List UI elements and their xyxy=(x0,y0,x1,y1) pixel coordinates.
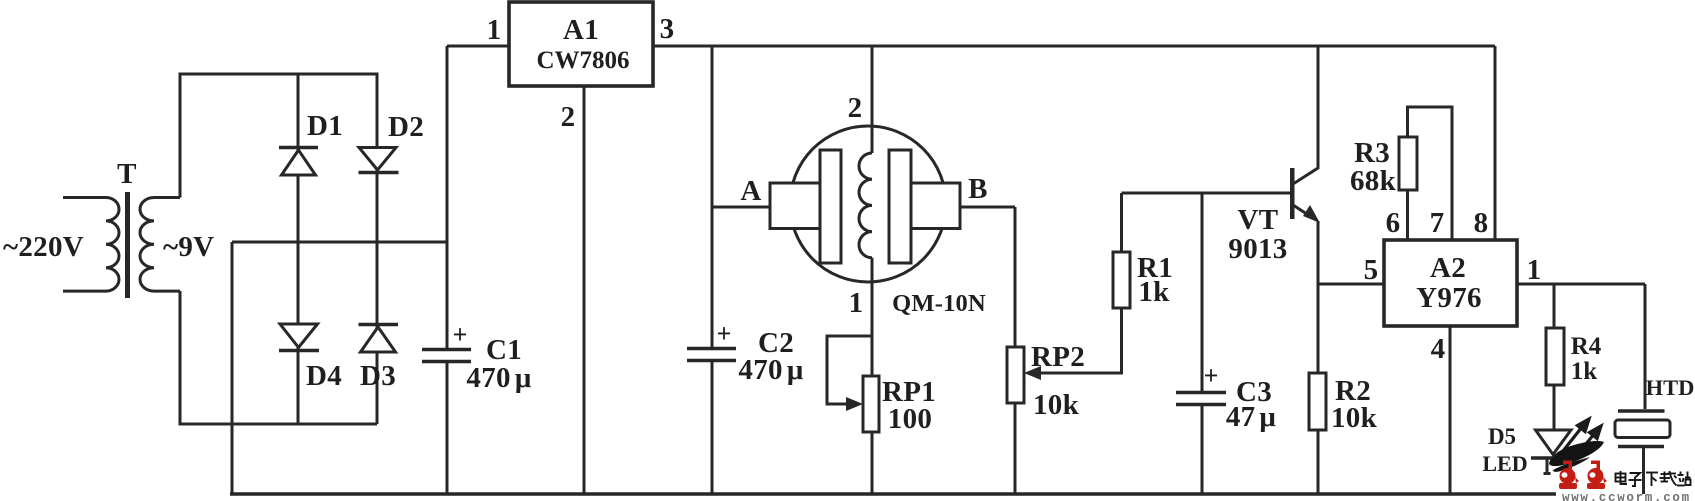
wire mid to ground rail xyxy=(231,242,234,494)
svg-text:68k: 68k xyxy=(1350,165,1397,197)
sensor right tab B xyxy=(911,183,960,229)
potentiometer RP1 xyxy=(827,336,936,494)
svg-text:1: 1 xyxy=(1527,254,1542,286)
svg-text:7: 7 xyxy=(1430,207,1445,239)
wire pin 5 xyxy=(1318,283,1384,286)
resistor R3 xyxy=(1350,107,1452,240)
svg-text:HTD: HTD xyxy=(1646,375,1695,400)
wire top rail xyxy=(653,45,1495,48)
svg-text:1k: 1k xyxy=(1571,358,1598,385)
svg-text:www.ccworm.com: www.ccworm.com xyxy=(1562,491,1691,501)
svg-text:470μ: 470μ xyxy=(738,354,803,386)
svg-text:RP2: RP2 xyxy=(1031,341,1085,373)
diode D2 xyxy=(359,111,425,173)
svg-text:100: 100 xyxy=(888,403,932,435)
resistor R4 xyxy=(1546,284,1602,430)
regulator A1 CW7806 xyxy=(447,2,674,133)
svg-text:A1: A1 xyxy=(563,14,599,46)
svg-text:5: 5 xyxy=(1364,254,1379,286)
wire base line xyxy=(1122,192,1292,195)
transformer primary winding xyxy=(63,198,119,292)
svg-text:D2: D2 xyxy=(388,111,424,143)
svg-text:Y976: Y976 xyxy=(1416,282,1482,314)
sensor pin 1 wire xyxy=(871,258,874,376)
svg-text:1: 1 xyxy=(487,14,502,46)
wire bridge bottom xyxy=(179,423,378,426)
svg-text:A2: A2 xyxy=(1430,252,1466,284)
svg-text:10k: 10k xyxy=(1331,402,1378,434)
svg-text:B: B xyxy=(968,173,988,205)
svg-text:D4: D4 xyxy=(306,360,342,392)
svg-text:1: 1 xyxy=(849,287,864,319)
svg-text:+: + xyxy=(1204,361,1219,390)
diode D1 xyxy=(279,110,343,175)
watermark ink blob xyxy=(1549,441,1604,466)
transformer secondary winding xyxy=(140,198,180,292)
IC A2 Y976 xyxy=(1364,207,1542,365)
wire B to RP2 xyxy=(960,206,1015,209)
svg-text:3: 3 xyxy=(660,13,675,45)
svg-text:D5: D5 xyxy=(1488,424,1516,449)
diode D3 xyxy=(359,325,399,393)
svg-text:+: + xyxy=(717,319,732,348)
watermark bug 1 xyxy=(1559,461,1577,490)
svg-text:4: 4 xyxy=(1431,333,1446,365)
transistor VT 9013 xyxy=(1228,46,1320,373)
LED D5 xyxy=(1482,424,1576,476)
wire pin 8 xyxy=(1494,46,1497,240)
capacitor C1 xyxy=(422,46,532,494)
sensor left tab A xyxy=(770,183,820,229)
svg-text:47μ: 47μ xyxy=(1226,401,1277,433)
svg-text:10k: 10k xyxy=(1033,389,1080,421)
svg-text:A: A xyxy=(740,175,761,207)
wire bridge top rail xyxy=(179,73,379,76)
resistor R1 xyxy=(1113,193,1173,308)
wire secondary top up xyxy=(179,74,182,198)
buzzer HTD xyxy=(1615,284,1694,494)
wire bridge right branch xyxy=(376,74,379,424)
svg-text:6: 6 xyxy=(1386,207,1401,239)
svg-text:D3: D3 xyxy=(360,360,396,392)
ground rail xyxy=(230,492,1556,496)
potentiometer RP2 xyxy=(1007,207,1122,494)
sensor pin 2 wire xyxy=(871,46,874,153)
svg-text:+: + xyxy=(453,320,468,349)
wire secondary top jog xyxy=(179,291,182,424)
svg-text:LED: LED xyxy=(1482,451,1527,476)
svg-text:~9V: ~9V xyxy=(163,231,214,263)
transformer T core xyxy=(125,192,130,298)
svg-text:R4: R4 xyxy=(1571,333,1602,360)
sensor heater coil xyxy=(859,153,872,258)
watermark text 电子下载站 xyxy=(1616,471,1691,486)
capacitor C2 xyxy=(687,46,804,494)
wire pin 4 xyxy=(1449,326,1452,494)
wire A1 pin2 down xyxy=(583,86,586,494)
wire A to C2 line xyxy=(712,206,770,209)
svg-text:9013: 9013 xyxy=(1228,233,1287,265)
svg-text:2: 2 xyxy=(561,101,576,133)
svg-text:470μ: 470μ xyxy=(466,362,531,394)
svg-text:CW7806: CW7806 xyxy=(536,47,629,74)
wire pin 1 xyxy=(1517,283,1645,286)
resistor R2 xyxy=(1309,373,1378,494)
LED arrows xyxy=(1563,419,1601,454)
svg-text:8: 8 xyxy=(1474,207,1489,239)
svg-text:2: 2 xyxy=(848,92,863,124)
svg-text:~220V: ~220V xyxy=(3,231,84,263)
svg-text:QM-10N: QM-10N xyxy=(892,290,986,317)
svg-text:1k: 1k xyxy=(1138,276,1170,308)
svg-text:D1: D1 xyxy=(307,110,343,142)
svg-text:VT: VT xyxy=(1238,204,1279,236)
watermark bug 2 xyxy=(1587,461,1605,490)
diode D4 xyxy=(279,324,342,392)
sensor left plate xyxy=(820,150,841,263)
capacitor C3 xyxy=(1176,193,1276,494)
wire bridge left branch xyxy=(297,74,300,424)
wire bridge mid line xyxy=(232,241,447,244)
svg-text:T: T xyxy=(117,158,137,190)
sensor right plate xyxy=(889,150,911,263)
gas sensor QM-10N circle xyxy=(790,126,946,282)
